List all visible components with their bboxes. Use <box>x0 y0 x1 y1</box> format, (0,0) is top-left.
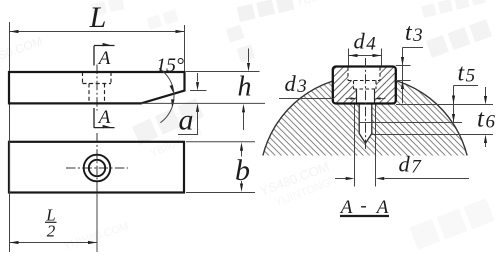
svg-text:YIJINTONG: YIJINTONG <box>296 0 350 9</box>
svg-text:2: 2 <box>47 222 56 241</box>
svg-text:A: A <box>375 197 389 218</box>
svg-text:h: h <box>238 72 252 103</box>
svg-text:15°: 15° <box>156 55 184 77</box>
svg-text:YIJIN80.COM: YIJIN80.COM <box>62 220 130 252</box>
svg-text:b: b <box>235 154 250 187</box>
svg-text:d4: d4 <box>354 29 377 55</box>
svg-text:t3: t3 <box>405 20 423 46</box>
svg-text:L: L <box>89 1 107 34</box>
svg-text:A: A <box>339 197 353 218</box>
svg-text:t5: t5 <box>458 61 476 87</box>
svg-text:d3: d3 <box>285 71 307 97</box>
svg-text:A: A <box>97 48 111 69</box>
svg-text:YB80.COM: YB80.COM <box>148 126 204 160</box>
svg-text:S0.COM: S0.COM <box>0 34 44 63</box>
svg-text:-: - <box>360 196 366 217</box>
svg-text:A: A <box>97 107 111 128</box>
svg-text:t6: t6 <box>477 106 495 133</box>
svg-text:a: a <box>179 104 194 137</box>
